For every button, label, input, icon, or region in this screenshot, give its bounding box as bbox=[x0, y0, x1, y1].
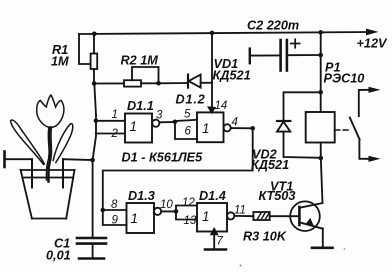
node relay contact blade bbox=[350, 118, 360, 140]
svg-text:1M: 1M bbox=[51, 55, 69, 69]
svg-text:R3 10K: R3 10K bbox=[243, 230, 287, 244]
wire right electrode to circuit bbox=[63, 158, 93, 161]
node junction R2 right bbox=[156, 81, 161, 86]
node junction rail-relay bbox=[318, 30, 323, 35]
svg-text:R2 1M: R2 1M bbox=[121, 54, 159, 68]
svg-text:КД521: КД521 bbox=[213, 69, 251, 83]
svg-text:1: 1 bbox=[202, 121, 210, 136]
transistor VT1 bbox=[259, 158, 323, 231]
wire pin7 to ground bbox=[213, 232, 215, 250]
relay P1 coil bbox=[306, 61, 365, 143]
svg-text:6: 6 bbox=[185, 126, 192, 138]
wire input pin 1 bbox=[96, 120, 125, 122]
node junction pin1 bbox=[94, 119, 99, 124]
wire contact bottom terminal bbox=[359, 140, 371, 159]
svg-text:КТ503: КТ503 bbox=[259, 189, 296, 203]
svg-text:1: 1 bbox=[131, 211, 139, 226]
diode VD1 bbox=[188, 57, 251, 88]
svg-text:C2 220m: C2 220m bbox=[247, 19, 299, 33]
svg-text:7: 7 bbox=[217, 236, 224, 248]
svg-text:8: 8 bbox=[111, 199, 118, 211]
wire emitter to ground bbox=[322, 229, 324, 248]
svg-text:4: 4 bbox=[232, 117, 238, 129]
svg-text:14: 14 bbox=[215, 100, 228, 112]
svg-text:D1.4: D1.4 bbox=[199, 189, 226, 203]
svg-text:9: 9 bbox=[112, 215, 119, 227]
svg-text:D1.1: D1.1 bbox=[127, 99, 154, 113]
resistor R3 bbox=[234, 212, 299, 244]
capacitor C1 bbox=[46, 237, 106, 263]
node pin 7 arrow mark bbox=[211, 228, 218, 235]
wire pin 6 bbox=[175, 122, 197, 139]
wire pin 4 output bbox=[231, 127, 253, 129]
node junction pin10 bbox=[174, 209, 179, 214]
ground (emitter) bbox=[312, 247, 333, 250]
node junction R1-R2 bbox=[92, 81, 97, 86]
svg-text:1: 1 bbox=[112, 109, 118, 121]
svg-text:РЭС10: РЭС10 bbox=[324, 72, 365, 86]
node junction C2 right bbox=[318, 53, 323, 58]
node relay contact linkage (dashed) bbox=[335, 129, 348, 131]
node junction rail-VD1 branch bbox=[210, 31, 215, 36]
ground (C1) bbox=[79, 257, 104, 260]
node junction pin8 bbox=[101, 208, 106, 213]
wire pin 8 bbox=[103, 209, 127, 211]
node sensor terminal bbox=[3, 152, 6, 168]
wire D1.3 out pin 10 bbox=[161, 210, 176, 212]
wire pin 13 bbox=[176, 211, 197, 219]
svg-text:1: 1 bbox=[202, 209, 210, 224]
node flower (tulip) bbox=[11, 95, 73, 182]
logic gate D1.3 bbox=[127, 189, 162, 233]
logic gate D1.2 bbox=[176, 93, 231, 143]
svg-text:D1 - К561ЛЕ5: D1 - К561ЛЕ5 bbox=[122, 151, 204, 165]
svg-text:2: 2 bbox=[111, 128, 119, 140]
svg-text:D1.3: D1.3 bbox=[128, 189, 155, 203]
wire pin 12 bbox=[176, 206, 197, 212]
node junction VD2 top bbox=[318, 90, 323, 95]
ground (D1.4 pin7) bbox=[205, 248, 226, 251]
wire rail to relay bbox=[320, 32, 322, 112]
svg-text:0,01: 0,01 bbox=[46, 249, 71, 263]
node junction pin4 bbox=[250, 126, 255, 131]
svg-text:D1.2: D1.2 bbox=[176, 93, 206, 107]
node junction rail-R1 bbox=[92, 32, 97, 37]
node junction VD2 bottom / collector bbox=[319, 156, 324, 161]
node contact bottom arrow bbox=[369, 156, 381, 162]
svg-text:10: 10 bbox=[160, 199, 173, 211]
wire D1.1 out to pins 5,6 bbox=[159, 121, 175, 123]
wire input pin 2 bbox=[96, 133, 125, 135]
wire terminal to left electrode bbox=[5, 158, 33, 160]
node junction pin5/6 bbox=[173, 120, 178, 125]
resistor R2 bbox=[94, 54, 159, 87]
wire +12V top rail bbox=[79, 32, 370, 34]
svg-text:КД521: КД521 bbox=[251, 158, 289, 172]
wire contact top terminal bbox=[359, 90, 372, 116]
wire relay to collector bbox=[320, 143, 322, 159]
node pin 14 arrow mark bbox=[208, 107, 215, 113]
svg-text:13: 13 bbox=[184, 215, 197, 227]
capacitor C2 bbox=[247, 19, 321, 71]
node junction sensor bbox=[90, 158, 95, 163]
wire R2 to VD1 bbox=[159, 82, 189, 84]
svg-text:5: 5 bbox=[184, 109, 191, 121]
diode VD2 bbox=[251, 92, 321, 172]
logic gate D1.4 bbox=[197, 189, 234, 232]
wire left input rail bbox=[93, 84, 96, 239]
resistor R1 bbox=[51, 34, 97, 84]
logic gate D1.1 bbox=[125, 99, 159, 143]
node top rail arrow bbox=[366, 29, 379, 36]
node contact top arrow bbox=[369, 87, 381, 93]
svg-text:12: 12 bbox=[182, 197, 195, 209]
wire rail to pin14 of D1.2 bbox=[211, 33, 213, 112]
wire pin 5 bbox=[175, 120, 197, 121]
svg-text:1: 1 bbox=[130, 119, 138, 134]
svg-text:11: 11 bbox=[234, 205, 246, 217]
node left electrode bbox=[31, 159, 33, 187]
node right electrode bbox=[62, 159, 64, 187]
svg-text:+12V: +12V bbox=[357, 37, 389, 51]
wire feedback to D1.3 inputs bbox=[103, 128, 253, 225]
node flower pot bbox=[21, 170, 75, 219]
